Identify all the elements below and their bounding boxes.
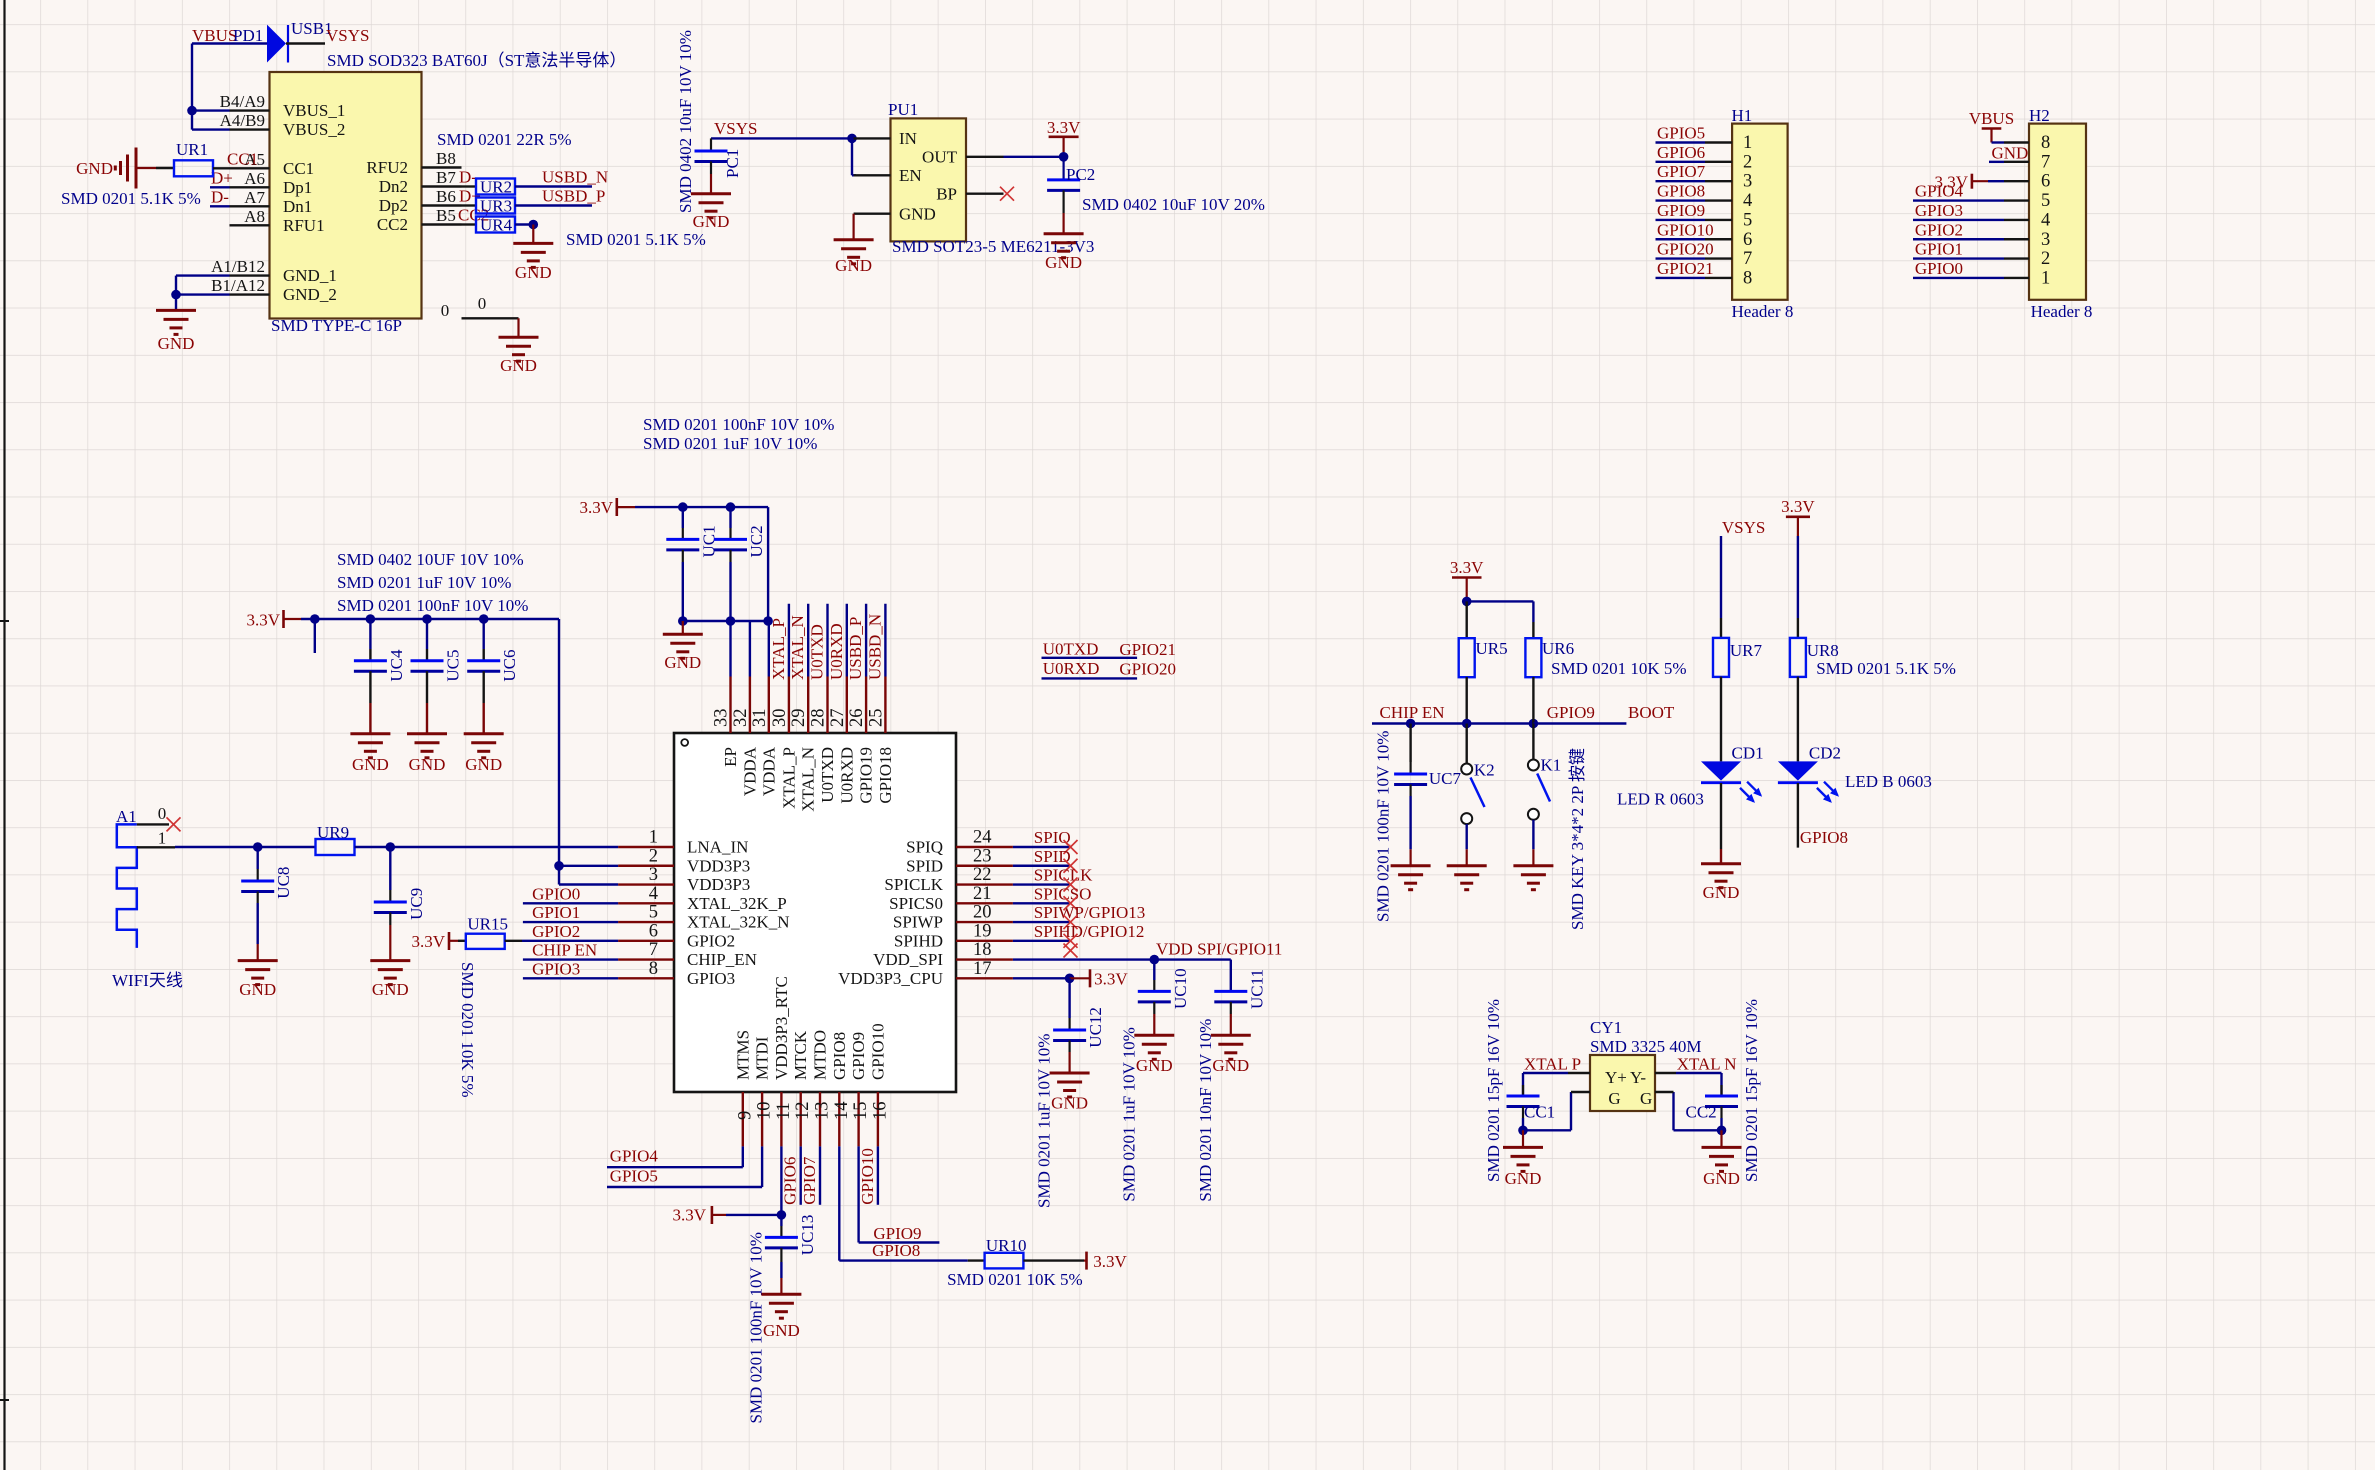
pin 18 VDD_SPI of U2 (956, 958, 1013, 960)
svg-text:5: 5 (1743, 210, 1752, 230)
no-connect X SPID (1064, 859, 1078, 873)
svg-text:UC12: UC12 (1086, 1007, 1105, 1048)
svg-text:UR4: UR4 (480, 216, 513, 235)
svg-text:Dp1: Dp1 (283, 178, 312, 197)
svg-text:GPIO19: GPIO19 (857, 747, 876, 804)
capacitor PC2 (1062, 157, 1064, 180)
capacitor UC11 (1230, 990, 1232, 992)
svg-text:GPIO8: GPIO8 (872, 1241, 920, 1260)
wire VDD_SPI net (1013, 958, 1154, 960)
svg-text:A4/B9: A4/B9 (220, 111, 265, 130)
regulator PU1 body (891, 118, 967, 241)
resistor UR5 (1465, 601, 1467, 638)
junction lower rail 2 (726, 616, 736, 626)
svg-text:VSYS: VSYS (326, 26, 369, 45)
svg-text:GND: GND (1051, 1094, 1088, 1113)
pin B1/A12 GND_2 of U1 (230, 293, 270, 295)
wire UR4 to ground (515, 223, 533, 225)
svg-text:XTAL_32K_P: XTAL_32K_P (687, 894, 787, 913)
svg-text:24: 24 (973, 828, 992, 848)
pin 5 of H2 (2004, 199, 2029, 201)
resistor UR1 (174, 160, 213, 176)
svg-text:28: 28 (809, 709, 829, 728)
svg-text:2: 2 (1743, 152, 1752, 172)
svg-text:SMD 0201 10K 5%: SMD 0201 10K 5% (1551, 659, 1687, 678)
resistor UR15 (458, 940, 466, 942)
wire net GPIO4 to H2 (1913, 199, 2004, 201)
svg-text:SMD 0201 100nF 10V 10%: SMD 0201 100nF 10V 10% (643, 415, 834, 434)
svg-text:D-: D- (211, 187, 229, 206)
wire U0RXD-GPIO20 (1042, 677, 1138, 679)
svg-text:A1/B12: A1/B12 (211, 257, 265, 276)
junction VDD3P3 (554, 861, 564, 871)
junction rail UC5 (422, 614, 432, 624)
wire 3.3V to UR8 (1797, 536, 1799, 618)
pin B8 RFU2 of U1 (422, 166, 462, 168)
wire UR6 to GPIO9/BOOT (1532, 677, 1534, 724)
pin 20 SPIWP of U2 (956, 921, 1013, 923)
junction K1 top (1529, 719, 1539, 729)
svg-text:GPIO1: GPIO1 (1915, 240, 1963, 259)
pin A7 Dn1 of U1 (230, 205, 270, 207)
ground below U1 (156, 309, 196, 312)
svg-text:GND: GND (693, 212, 730, 231)
svg-text:GPIO7: GPIO7 (1657, 162, 1706, 181)
pin B6 Dp2 of U1 (422, 204, 462, 206)
svg-text:UR3: UR3 (480, 197, 512, 216)
svg-text:VBUS_1: VBUS_1 (283, 101, 345, 120)
pin 3 VDD3P3 of U2 (618, 883, 674, 885)
svg-text:SMD 0201 5.1K 5%: SMD 0201 5.1K 5% (1816, 659, 1956, 678)
svg-text:MTMS: MTMS (733, 1030, 752, 1080)
ground below CC2 (1720, 1130, 1722, 1147)
svg-text:K2: K2 (1474, 761, 1495, 780)
svg-text:GND: GND (1212, 1056, 1249, 1075)
wire USBD_N (515, 185, 592, 187)
svg-text:GPIO0: GPIO0 (1915, 259, 1963, 278)
junction UR5 top (1462, 597, 1472, 607)
wire GND pins of U1 (176, 274, 230, 276)
ground below UC4 (350, 732, 390, 735)
svg-text:GND: GND (1136, 1056, 1173, 1075)
pin 6 GPIO2 of U2 (618, 940, 674, 942)
junction UR5 bottom (1462, 719, 1472, 729)
svg-text:3.3V: 3.3V (1781, 497, 1815, 516)
wire OUT to 3.3V (1004, 156, 1064, 158)
svg-text:20: 20 (973, 903, 992, 923)
svg-text:SMD TYPE-C 16P: SMD TYPE-C 16P (271, 316, 402, 335)
pin 25 GPIO18 of U2 (884, 677, 886, 734)
svg-text:UR5: UR5 (1476, 639, 1508, 658)
svg-text:SPIHD/GPIO12: SPIHD/GPIO12 (1034, 922, 1145, 941)
svg-text:3: 3 (1743, 172, 1752, 192)
svg-text:3.3V: 3.3V (1450, 558, 1484, 577)
pin 2 of H2 (2004, 257, 2029, 259)
ground below UC9 (370, 959, 410, 962)
svg-text:GPIO9: GPIO9 (1547, 703, 1595, 722)
pin-1 marker circle (681, 739, 688, 746)
svg-text:H2: H2 (2029, 106, 2050, 125)
svg-text:A1: A1 (116, 807, 137, 826)
svg-text:SMD 0201 5.1K 5%: SMD 0201 5.1K 5% (566, 230, 706, 249)
svg-text:RFU2: RFU2 (366, 158, 408, 177)
svg-text:GPIO5: GPIO5 (610, 1166, 658, 1185)
svg-text:GND: GND (465, 755, 502, 774)
svg-text:6: 6 (1743, 230, 1752, 250)
svg-text:U0RXD: U0RXD (1043, 659, 1100, 678)
junction rail UC4 (366, 614, 376, 624)
svg-text:Header 8: Header 8 (1732, 302, 1794, 321)
junction OUT (1059, 152, 1069, 162)
svg-text:BOOT: BOOT (1628, 703, 1675, 722)
svg-text:GND: GND (1992, 143, 2029, 162)
svg-text:SMD 0201 1uF 10V 10%: SMD 0201 1uF 10V 10% (1119, 1027, 1138, 1201)
power symbol 3.3V right of UR10 (1085, 1252, 1088, 1270)
pin 30 XTAL_P of U2 (788, 677, 790, 734)
svg-text:GPIO0: GPIO0 (532, 884, 580, 903)
svg-text:0: 0 (158, 804, 167, 823)
svg-text:5: 5 (2041, 191, 2050, 211)
svg-text:GPIO6: GPIO6 (781, 1157, 800, 1205)
wire net GPIO6 at pin 12 (800, 1146, 802, 1204)
pin OUT of PU1 (966, 156, 1004, 158)
svg-text:SPIQ: SPIQ (906, 838, 943, 857)
pin 16 GPIO10 of U2 (877, 1092, 879, 1146)
svg-text:CHIP EN: CHIP EN (532, 941, 597, 960)
svg-text:SPID: SPID (1034, 847, 1071, 866)
wire 3.3V rail top (635, 506, 768, 508)
wire net GPIO3 to pin 8 (523, 977, 618, 979)
svg-text:31: 31 (750, 709, 770, 728)
svg-text:3.3V: 3.3V (411, 932, 445, 951)
svg-text:GPIO20: GPIO20 (1657, 240, 1714, 259)
power symbol 3.3V at PU1 output (1049, 136, 1079, 139)
svg-text:XTAL_N: XTAL_N (799, 747, 818, 812)
svg-text:VDDA: VDDA (740, 746, 759, 796)
svg-text:GND: GND (372, 980, 409, 999)
wire net SPIQ (1013, 846, 1071, 848)
junction rail a (310, 614, 320, 624)
wire net XTAL_N at U2 top (807, 604, 809, 677)
capacitor UC12 (1068, 978, 1070, 1018)
svg-text:3.3V: 3.3V (1094, 969, 1128, 988)
svg-text:SMD 0201 22R 5%: SMD 0201 22R 5% (437, 130, 572, 149)
svg-text:2: 2 (649, 846, 658, 866)
svg-text:VBUS: VBUS (1969, 109, 2014, 128)
svg-text:SPICSO: SPICSO (1034, 884, 1092, 903)
pin 1 of A1 (137, 846, 175, 848)
svg-text:Y-: Y- (1630, 1068, 1646, 1087)
svg-text:GND_2: GND_2 (283, 285, 337, 304)
svg-text:3.3V: 3.3V (579, 498, 613, 517)
svg-text:UC9: UC9 (407, 888, 426, 920)
svg-text:GPIO3: GPIO3 (687, 969, 735, 988)
svg-text:B6: B6 (436, 187, 456, 206)
svg-text:UC7: UC7 (1429, 769, 1462, 788)
wire VBUS pins (192, 109, 230, 111)
wire UR1 to CC1 pin (213, 167, 230, 169)
svg-text:LNA_IN: LNA_IN (687, 838, 748, 857)
wire net GPIO1 to H2 (1913, 257, 2004, 259)
wire net SPID (1013, 865, 1071, 867)
svg-text:GPIO18: GPIO18 (876, 747, 895, 804)
pin 12 MTCK of U2 (800, 1092, 802, 1146)
svg-text:1: 1 (649, 828, 658, 848)
svg-text:GPIO10: GPIO10 (1657, 220, 1714, 239)
svg-text:UC5: UC5 (444, 649, 463, 681)
pin 1 of H1 net GPIO5 (1656, 141, 1706, 143)
svg-text:UR10: UR10 (986, 1236, 1027, 1255)
svg-text:30: 30 (770, 709, 790, 728)
svg-text:GND: GND (835, 256, 872, 275)
no-connect X SPICSO (1064, 896, 1078, 910)
no-connect X SPIHD/GPIO12 (1064, 934, 1078, 948)
ground below CC1 (1522, 1130, 1524, 1147)
svg-text:8: 8 (1743, 268, 1752, 288)
svg-text:XTAL P: XTAL P (1524, 1055, 1581, 1074)
ground below PC1 (691, 192, 731, 195)
capacitor UC7 (1409, 724, 1411, 763)
no-connect X SPIWP/GPIO13 (1064, 915, 1078, 929)
junction UC12 (1065, 974, 1075, 984)
junction UC9 (386, 842, 396, 852)
svg-text:18: 18 (973, 940, 992, 960)
svg-text:SMD 0402 10uF 10V 20%: SMD 0402 10uF 10V 20% (1082, 195, 1265, 214)
pin 5 XTAL_32K_N of U2 (618, 921, 674, 923)
pin 22 SPICLK of U2 (956, 883, 1013, 885)
svg-text:GND: GND (515, 263, 552, 282)
wire 3.3V rail (301, 618, 559, 620)
resistor UR2 (462, 185, 477, 187)
svg-text:GPIO8: GPIO8 (1800, 828, 1848, 847)
wire USBD_P (515, 204, 592, 206)
svg-text:0: 0 (478, 294, 487, 313)
svg-text:A7: A7 (244, 188, 265, 207)
svg-text:GPIO9: GPIO9 (849, 1032, 868, 1080)
pin 14 GPIO8 of U2 (838, 1092, 840, 1146)
pin 3 of H2 (2004, 238, 2029, 240)
svg-text:7: 7 (1743, 249, 1752, 269)
svg-text:4: 4 (649, 884, 658, 904)
svg-text:GND: GND (500, 356, 537, 375)
pin B4/A9 VBUS_1 of U1 (230, 109, 270, 111)
wire net SPIHD/GPIO12 (1013, 940, 1071, 942)
wire UR5 to CHIP_EN (1465, 677, 1467, 724)
wire CD1 to ground (1720, 783, 1722, 849)
capacitor UC5 (426, 619, 428, 649)
svg-text:GPIO4: GPIO4 (1915, 182, 1964, 201)
resistor UR6 (1525, 638, 1541, 677)
svg-text:SPICLK: SPICLK (884, 875, 943, 894)
svg-text:EN: EN (899, 166, 922, 185)
wire net XTAL_P at U2 top (788, 604, 790, 677)
svg-text:PC1: PC1 (723, 149, 742, 178)
svg-text:CC2: CC2 (1686, 1103, 1717, 1122)
svg-text:SMD 0201 10K 5%: SMD 0201 10K 5% (947, 1270, 1083, 1289)
wire pin17 to 3.3V (1013, 977, 1070, 979)
junction lower rail 3 (763, 616, 773, 626)
svg-text:USBD_P: USBD_P (846, 617, 865, 680)
resistor UR3 (462, 204, 477, 206)
svg-text:GND: GND (409, 755, 446, 774)
svg-text:SMD 0201 5.1K 5%: SMD 0201 5.1K 5% (61, 189, 201, 208)
power symbol 3.3V right of UC12 (1070, 977, 1090, 979)
svg-text:XTAL_N: XTAL_N (788, 615, 807, 680)
junction UC13 (777, 1210, 787, 1220)
junction UR4 gnd (529, 220, 539, 230)
ground below UC13 (761, 1293, 801, 1296)
wire net GPIO2 to H2 (1913, 238, 2004, 240)
svg-text:SPIHD: SPIHD (894, 931, 943, 950)
svg-text:XTAL_32K_N: XTAL_32K_N (687, 913, 790, 932)
capacitor UC4 (369, 619, 371, 649)
svg-text:GPIO10: GPIO10 (858, 1148, 877, 1205)
junction VBUS (187, 106, 197, 116)
svg-text:XTAL_P: XTAL_P (769, 618, 788, 680)
wire UR7 to CD1 (1720, 677, 1722, 762)
svg-text:27: 27 (828, 709, 848, 728)
svg-text:PC2: PC2 (1066, 165, 1095, 184)
pin 4 of H1 net GPIO8 (1656, 199, 1706, 201)
svg-text:GND: GND (239, 980, 276, 999)
pin 9 MTMS of U2 (742, 1092, 744, 1146)
pin GND of PU1 (854, 212, 891, 214)
wire net XTAL_N to CY1 (1655, 1072, 1676, 1074)
svg-text:UC2: UC2 (747, 525, 766, 557)
svg-text:3.3V: 3.3V (1093, 1252, 1127, 1271)
svg-text:CD2: CD2 (1809, 744, 1841, 763)
svg-text:USBD_N: USBD_N (865, 614, 884, 680)
svg-text:25: 25 (866, 709, 886, 728)
svg-text:GPIO10: GPIO10 (868, 1023, 887, 1080)
junction rail UC6 (479, 614, 489, 624)
junction GND U1 (171, 290, 181, 300)
ground below UC7 (1391, 864, 1431, 867)
svg-text:XTAL N: XTAL N (1677, 1055, 1737, 1074)
wire net USBD_P at U2 top (865, 604, 867, 677)
wire net GPIO7 at pin 13 (819, 1146, 821, 1204)
pin 3 of H1 net GPIO7 (1656, 180, 1706, 182)
svg-text:GPIO21: GPIO21 (1657, 259, 1714, 278)
ground below UC10 (1134, 1034, 1174, 1037)
svg-text:CHIP_EN: CHIP_EN (687, 950, 757, 969)
pin B7 Dn2 of U1 (422, 185, 462, 187)
resistor UR9 (316, 839, 355, 855)
svg-text:6: 6 (649, 921, 658, 941)
switch K1 (1532, 724, 1534, 760)
svg-text:D+: D+ (211, 168, 233, 187)
svg-text:SMD 0201 1uF 10V 10%: SMD 0201 1uF 10V 10% (337, 573, 511, 592)
wire lower rail to pins 33-31 (683, 620, 768, 622)
svg-text:CC2: CC2 (377, 215, 408, 234)
capacitor CC1 (1522, 1085, 1524, 1096)
ground below PC2 (1044, 232, 1084, 235)
svg-text:2: 2 (2041, 249, 2050, 269)
svg-text:LED B 0603: LED B 0603 (1845, 772, 1932, 791)
ground below K2 (1447, 864, 1487, 867)
svg-text:UR7: UR7 (1730, 641, 1763, 660)
resistor UR4 (462, 223, 477, 225)
pin 31 VDDA of U2 (768, 677, 770, 734)
pin A5 CC1 of U1 (230, 167, 270, 169)
svg-text:U0TXD: U0TXD (818, 747, 837, 803)
pin 2 VDD3P3 of U2 (618, 865, 674, 867)
ground below UC11 (1211, 1034, 1251, 1037)
svg-text:GPIO2: GPIO2 (1915, 220, 1963, 239)
svg-text:SMD 0201 100nF 10V 10%: SMD 0201 100nF 10V 10% (337, 596, 528, 615)
wire net XTAL_P to CY1 (1568, 1072, 1590, 1074)
wire net CHIP_EN to pin 7 (523, 958, 618, 960)
svg-text:U0RXD: U0RXD (837, 747, 856, 804)
svg-text:VDD3P3: VDD3P3 (687, 875, 750, 894)
LED CD1 (1701, 761, 1741, 780)
svg-text:CC1: CC1 (227, 150, 258, 169)
pin 8 GPIO3 of U2 (618, 977, 674, 979)
wire UR9 to chip pin 1 (355, 846, 391, 848)
header H1 body (1732, 124, 1788, 300)
module U2 ESP32 body (674, 733, 956, 1092)
svg-text:VDD_SPI: VDD_SPI (873, 950, 943, 969)
svg-text:GND: GND (1045, 253, 1082, 272)
junction UC10 (1150, 955, 1160, 965)
svg-text:UR9: UR9 (317, 823, 349, 842)
svg-text:SMD 0201 100nF 10V 10%: SMD 0201 100nF 10V 10% (1374, 731, 1393, 922)
junction CC1 (1518, 1126, 1528, 1136)
svg-text:OUT: OUT (922, 148, 958, 167)
svg-text:USBD_N: USBD_N (542, 168, 608, 187)
svg-text:SMD 0201 1uF 10V 10%: SMD 0201 1uF 10V 10% (1035, 1034, 1054, 1208)
svg-text:SPICLK: SPICLK (1034, 866, 1093, 885)
wire VSYS to PU1 (711, 137, 852, 139)
wire net GPIO10 at pin 16 (877, 1146, 879, 1204)
svg-text:CY1: CY1 (1590, 1018, 1622, 1037)
svg-text:GPIO20: GPIO20 (1119, 660, 1176, 679)
resistor UR8 (1790, 638, 1806, 677)
svg-text:4: 4 (1743, 191, 1752, 211)
capacitor UC10 (1153, 960, 1155, 980)
svg-text:A6: A6 (244, 169, 265, 188)
stub below rail (314, 619, 316, 653)
capacitor CC2 (1720, 1085, 1722, 1096)
svg-text:SMD 3325 40M: SMD 3325 40M (1590, 1037, 1701, 1056)
svg-text:29: 29 (789, 709, 809, 728)
wire antenna to UR9 (175, 846, 258, 848)
wire Dn1 net D- (210, 205, 230, 207)
pin EN of PU1 (854, 174, 891, 176)
svg-text:26: 26 (847, 709, 867, 728)
pin A8 RFU1 of U1 (230, 224, 270, 226)
svg-text:B5: B5 (436, 206, 456, 225)
svg-text:SPICS0: SPICS0 (889, 894, 943, 913)
pin 7 CHIP_EN of U2 (618, 958, 674, 960)
header H2 body (2029, 124, 2086, 300)
svg-text:9: 9 (735, 1111, 755, 1120)
pin 6 of H1 net GPIO10 (1656, 238, 1706, 240)
pin 8 of H1 net GPIO21 (1656, 277, 1706, 279)
wire net GPIO5 (607, 1186, 762, 1188)
svg-text:UC11: UC11 (1247, 969, 1266, 1009)
pin 29 XTAL_N of U2 (807, 677, 809, 734)
ground at PU1 (834, 238, 874, 241)
pin A1/B12 GND_1 of U1 (230, 274, 270, 276)
svg-text:UR15: UR15 (467, 915, 508, 934)
svg-text:GPIO3: GPIO3 (532, 959, 580, 978)
wire net GPIO0 to pin 4 (523, 902, 618, 904)
wire VBUS to diode and connector (192, 42, 267, 44)
svg-text:3.3V: 3.3V (672, 1206, 706, 1225)
svg-text:SPIWP: SPIWP (893, 913, 943, 932)
svg-text:U0RXD: U0RXD (827, 623, 846, 680)
